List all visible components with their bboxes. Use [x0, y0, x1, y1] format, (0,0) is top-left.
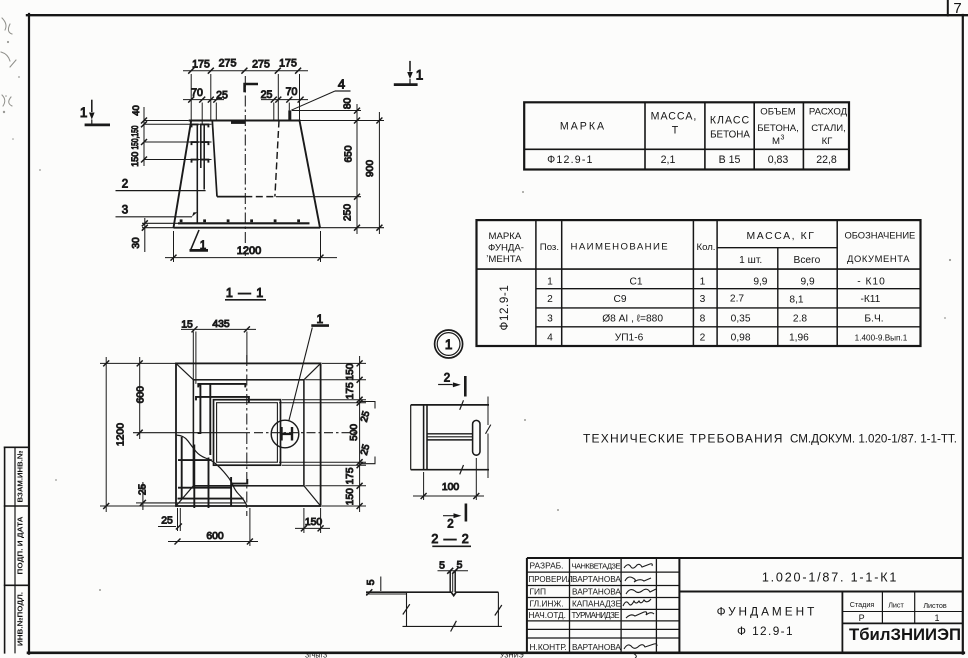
svg-text:650: 650 — [344, 145, 355, 162]
svg-text:ИНВ.№ПОДЛ.: ИНВ.№ПОДЛ. — [16, 592, 25, 646]
svg-text:ОБОЗНАЧЕНИЕ: ОБОЗНАЧЕНИЕ — [844, 230, 915, 241]
leader for item 4 — [291, 91, 335, 110]
svg-text:2: 2 — [447, 519, 453, 531]
mesh bar staple second — [196, 397, 249, 403]
svg-text:БЕТОНА,: БЕТОНА, — [757, 123, 799, 134]
svg-text:Н.КОНТР.: Н.КОНТР. — [530, 642, 567, 652]
svg-text:275: 275 — [219, 58, 237, 70]
mesh hook bar bottom — [232, 479, 247, 484]
svg-text:НАЧ.ОТД.: НАЧ.ОТД. — [529, 611, 566, 620]
overall 900 dimension — [378, 112, 380, 234]
svg-text:НАИМЕНОВАНИЕ: НАИМЕНОВАНИЕ — [571, 242, 670, 253]
plan left chain 1200 — [105, 357, 107, 512]
sheet frame bottom border — [28, 651, 964, 654]
svg-text:КАПАНАДЗЕ: КАПАНАДЗЕ — [572, 600, 622, 609]
svg-text:Т: Т — [672, 125, 679, 137]
svg-text:150: 150 — [345, 488, 356, 505]
table1 outer border — [524, 102, 849, 169]
svg-text:2: 2 — [444, 373, 450, 385]
row 2 — [547, 294, 881, 306]
svg-text:150: 150 — [345, 363, 356, 380]
svg-text:150,150: 150,150 — [129, 126, 140, 150]
svg-text:4: 4 — [338, 77, 345, 92]
signatures (handwritten squiggles) — [623, 564, 657, 658]
mesh grid horizontal bars — [178, 459, 212, 461]
svg-text:ФУНДА-: ФУНДА- — [488, 243, 524, 254]
plan top surface square — [193, 380, 304, 486]
plate thickness line left — [366, 593, 407, 595]
svg-text:0,98: 0,98 — [731, 333, 751, 344]
second dimension line 25/70 right — [261, 99, 308, 101]
svg-text:Лист: Лист — [888, 601, 904, 610]
mesh C1 vertical bars — [196, 124, 198, 224]
svg-text:ТбилЗНИИЭП: ТбилЗНИИЭП — [849, 626, 961, 644]
table2 header bottom line — [477, 268, 921, 270]
30 dimension bottom left — [144, 218, 146, 252]
anchor plate (double line) — [423, 405, 425, 470]
row 4 — [547, 333, 908, 344]
mesh cross-bar dots — [180, 219, 300, 222]
socket opening outer square — [214, 400, 281, 466]
detail circle mark 1 — [435, 330, 463, 358]
svg-text:175: 175 — [192, 58, 210, 70]
svg-text:2: 2 — [547, 294, 553, 305]
detail concrete top edge — [411, 404, 489, 406]
svg-text:СТАЛИ,: СТАЛИ, — [811, 123, 846, 134]
svg-text:30: 30 — [131, 237, 142, 249]
title block outer — [527, 557, 963, 559]
svg-text:КГ: КГ — [822, 136, 834, 147]
svg-text:7: 7 — [953, 0, 961, 17]
svg-text:С9: С9 — [613, 294, 626, 305]
svg-text:3: 3 — [781, 135, 785, 142]
svg-text:2.7: 2.7 — [730, 294, 744, 305]
svg-text:1: 1 — [316, 312, 323, 326]
svg-text:ГИП: ГИП — [530, 587, 547, 597]
mesh grid vertical bars — [181, 437, 183, 499]
concrete left edge — [406, 592, 408, 626]
mesh C1 cross hooks level 3 — [144, 159, 212, 161]
svg-text:5: 5 — [439, 560, 445, 571]
svg-text:600: 600 — [136, 386, 147, 404]
break slash bottom — [460, 465, 464, 474]
svg-text:2 — 2: 2 — 2 — [431, 532, 469, 546]
plan horizontal axis / 600 extension — [133, 432, 250, 434]
table2 outer border — [477, 220, 921, 346]
left margin stamp boxes outline — [4, 447, 6, 653]
left 5 dimension — [380, 577, 382, 592]
stage mini-table — [841, 592, 843, 653]
svg-text:15: 15 — [181, 320, 193, 331]
svg-text:ТЕХНИЧЕСКИЕ ТРЕБОВАНИЯ: ТЕХНИЧЕСКИЕ ТРЕБОВАНИЯ — [583, 432, 784, 446]
5/5 dimension — [438, 570, 469, 572]
table2 column lines — [535, 220, 537, 346]
detail left edge — [410, 405, 412, 470]
mesh vertical bar with end hooks — [198, 385, 201, 433]
svg-text:ГЛ.ИНЖ.: ГЛ.ИНЖ. — [530, 599, 564, 609]
svg-text:Листов: Листов — [923, 601, 947, 610]
plan outer square — [176, 363, 321, 506]
embedded item 4 bar — [288, 110, 291, 120]
bottom 25 dimension — [177, 508, 179, 531]
svg-text:500: 500 — [349, 424, 360, 441]
svg-text:ТУРМАНИДЗЕ: ТУРМАНИДЗЕ — [572, 611, 620, 620]
page number box line — [947, 0, 949, 16]
svg-text:МАРКА: МАРКА — [489, 231, 522, 242]
right break line — [487, 397, 489, 426]
svg-text:УЗНИЭ: УЗНИЭ — [500, 653, 524, 658]
bottom 600 dimension — [249, 508, 251, 546]
svg-text:Поз.: Поз. — [540, 242, 559, 253]
svg-text:900: 900 — [365, 160, 376, 177]
svg-text:ПОДП. И ДАТА: ПОДП. И ДАТА — [16, 516, 25, 575]
svg-text:70: 70 — [286, 86, 298, 98]
corner diagonal bottom-left — [176, 486, 193, 506]
svg-text:ЗгчыгЗ: ЗгчыгЗ — [305, 653, 327, 658]
svg-text:БЕТОНА: БЕТОНА — [710, 130, 750, 141]
svg-text:1: 1 — [934, 613, 939, 623]
svg-text:0,83: 0,83 — [768, 154, 789, 166]
plate top surface with weld notch — [366, 592, 498, 595]
svg-text:1 шт.: 1 шт. — [739, 255, 762, 266]
svg-text:5: 5 — [366, 579, 377, 585]
svg-text:1,96: 1,96 — [789, 333, 809, 344]
svg-text:175: 175 — [279, 58, 297, 70]
row 1 — [547, 277, 886, 288]
table1 column lines — [644, 102, 646, 169]
section 2 mark bottom — [465, 504, 468, 522]
mesh C1 cross hooks level 1 — [144, 123, 212, 125]
svg-text:М: М — [772, 136, 780, 147]
plan left chain 600 — [139, 357, 141, 439]
plan right extension lines — [322, 362, 366, 364]
svg-text:25: 25 — [216, 89, 228, 101]
names table rows — [527, 571, 680, 573]
top dimension line 175/275/275/175 — [183, 70, 308, 72]
svg-text:175: 175 — [345, 467, 356, 484]
pencil scribbles top-left margin — [1, 18, 16, 106]
svg-text:МАССА, КГ: МАССА, КГ — [747, 231, 816, 242]
svg-text:150: 150 — [305, 517, 323, 528]
mesh long vertical bar — [209, 384, 211, 455]
anchor rod above plate — [449, 572, 451, 593]
svg-text:600: 600 — [206, 531, 224, 542]
svg-text:РАЗРАБ.: РАЗРАБ. — [530, 561, 564, 571]
corner diagonal top-right — [304, 363, 321, 379]
25 callout lower — [361, 457, 376, 464]
foundation left sloped side — [174, 121, 192, 228]
svg-text:3: 3 — [122, 205, 128, 217]
svg-text:80: 80 — [343, 98, 354, 110]
svg-text:1: 1 — [445, 337, 453, 352]
svg-text:1: 1 — [80, 105, 88, 120]
svg-text:100: 100 — [442, 482, 460, 493]
svg-text:Ф12.9-1: Ф12.9-1 — [498, 285, 511, 331]
corner diagonal top-left — [176, 363, 193, 379]
detail concrete bottom edge — [411, 469, 489, 471]
svg-text:Кол.: Кол. — [697, 242, 716, 253]
foundation bottom line — [174, 227, 321, 229]
svg-text:5: 5 — [457, 560, 463, 571]
svg-text:1: 1 — [700, 277, 706, 288]
svg-text:435: 435 — [212, 319, 230, 330]
svg-text:2,1: 2,1 — [661, 154, 676, 166]
svg-text:В 15: В 15 — [719, 154, 741, 166]
svg-text:Б.Ч.: Б.Ч. — [864, 314, 883, 325]
svg-text:ВАРТАНОВА: ВАРТАНОВА — [572, 575, 621, 584]
svg-text:275: 275 — [252, 58, 270, 70]
sheet frame left border — [28, 14, 30, 654]
table2 row lines — [536, 288, 921, 290]
svg-text:3: 3 — [547, 314, 553, 325]
svg-text:1: 1 — [200, 240, 206, 252]
svg-text:ВАРТАНОВА: ВАРТАНОВА — [572, 643, 621, 652]
svg-text:70: 70 — [191, 87, 203, 99]
svg-text:СМ.ДОКУМ. 1.020-1/87. 1-1-ТТ.: СМ.ДОКУМ. 1.020-1/87. 1-1-ТТ. — [790, 433, 957, 446]
svg-text:1200: 1200 — [116, 423, 127, 446]
svg-text:25: 25 — [261, 89, 273, 101]
svg-text:8: 8 — [700, 314, 706, 325]
svg-text:ПРОВЕРИЛ: ПРОВЕРИЛ — [529, 575, 573, 584]
detail circle on plan — [271, 420, 299, 448]
anchor rod — [427, 433, 473, 435]
svg-text:1.020-1/87. 1-1-К1: 1.020-1/87. 1-1-К1 — [762, 571, 898, 585]
faint print ghost bottom — [305, 653, 524, 658]
svg-text:Всего: Всего — [794, 255, 821, 266]
svg-text:250: 250 — [343, 204, 354, 221]
svg-text:МАССА,: МАССА, — [651, 111, 698, 123]
bottom 1200 dimension — [173, 231, 175, 262]
svg-text:25: 25 — [161, 516, 173, 527]
svg-text:Ф12.9-1: Ф12.9-1 — [547, 154, 594, 166]
half-section corner mark upper — [245, 84, 258, 92]
half-section bar at top surface — [231, 121, 245, 124]
concrete bottom edge — [403, 625, 503, 627]
second dimension line 70/25 left — [183, 99, 224, 101]
svg-text:9,9: 9,9 — [753, 277, 767, 288]
plan right chain — [359, 356, 361, 512]
svg-text:150: 150 — [129, 152, 140, 167]
svg-text:-К11: -К11 — [860, 294, 880, 305]
svg-text:9,9: 9,9 — [801, 277, 815, 288]
extension lines top dims — [190, 74, 192, 121]
svg-text:Стадия: Стадия — [850, 600, 875, 609]
svg-text:ЧАНКВЕТАДЗЕ: ЧАНКВЕТАДЗЕ — [572, 562, 621, 571]
svg-text:Ø8 АI , ℓ=880: Ø8 АI , ℓ=880 — [602, 314, 663, 325]
bottom 150 dimension — [303, 508, 305, 533]
socket cavity left wall — [212, 121, 217, 197]
svg-text:ʼМЕНТА: ʼМЕНТА — [486, 254, 522, 265]
leader to detail flag — [289, 328, 313, 422]
svg-text:25: 25 — [137, 484, 148, 496]
mesh bar staple top — [198, 384, 245, 388]
bottom mesh C9 thick bar — [142, 222, 178, 224]
svg-text:ФУНДАМЕНТ: ФУНДАМЕНТ — [717, 605, 818, 619]
svg-text:Р: Р — [859, 613, 865, 623]
svg-text:3: 3 — [700, 294, 706, 305]
plan top dimension 15/435 — [181, 328, 256, 330]
row 3 — [547, 314, 883, 325]
100 dimension — [423, 472, 425, 500]
svg-text:1.400-9.Вып.1: 1.400-9.Вып.1 — [855, 334, 908, 343]
svg-text:1: 1 — [416, 68, 424, 83]
svg-text:- К10: - К10 — [857, 277, 886, 288]
svg-text:МАРКА: МАРКА — [560, 121, 606, 133]
svg-text:2.8: 2.8 — [793, 314, 807, 325]
svg-text:1 — 1: 1 — 1 — [226, 286, 264, 300]
vertical axis line — [244, 76, 246, 256]
socket cavity bottom — [217, 196, 245, 198]
sheet frame top border — [27, 14, 968, 16]
svg-text:2: 2 — [122, 179, 128, 191]
socket cavity right wall (hidden, dashed) — [275, 121, 279, 197]
doc number box bottom — [679, 591, 962, 593]
anchor washer (capsule) — [473, 420, 480, 455]
svg-text:ОБЪЕМ: ОБЪЕМ — [760, 107, 795, 118]
25 dimension left bottom — [136, 502, 140, 504]
mesh C1 cross hooks level 2 — [144, 141, 212, 143]
svg-text:40: 40 — [130, 105, 141, 115]
table1 header divider — [524, 148, 849, 150]
svg-text:175: 175 — [345, 382, 356, 399]
svg-text:ВАРТАНОВА: ВАРТАНОВА — [572, 588, 621, 597]
break slash top — [460, 400, 464, 410]
svg-text:РАСХОД: РАСХОД — [809, 107, 848, 118]
plan extension lines left — [100, 362, 176, 364]
масса кг sub-header line — [717, 247, 837, 249]
svg-text:С1: С1 — [629, 277, 642, 288]
svg-text:8,1: 8,1 — [789, 294, 803, 305]
svg-text:Ф 12.9-1: Ф 12.9-1 — [737, 624, 794, 638]
section 1 mark lower (triangle flag) — [191, 230, 199, 250]
svg-text:22,8: 22,8 — [816, 154, 837, 166]
svg-text:УП1-6: УП1-6 — [615, 333, 644, 344]
svg-text:2: 2 — [700, 333, 706, 344]
svg-text:1: 1 — [547, 277, 553, 288]
concrete right edge — [497, 592, 499, 626]
break (wavy) line — [177, 435, 247, 506]
section mark 1 top-right — [409, 61, 411, 72]
right dimension chain 80/650/250 — [356, 104, 358, 234]
names table columns — [569, 558, 571, 653]
svg-text:0,35: 0,35 — [731, 314, 751, 325]
svg-text:КЛАСС: КЛАСС — [710, 115, 750, 127]
foundation top surface line — [189, 120, 301, 122]
svg-text:1200: 1200 — [237, 245, 261, 257]
left dimension chain 40/150/150/150 — [143, 107, 145, 166]
corner diagonal bottom-right — [304, 486, 321, 506]
svg-text:ВЗАМ.ИНВ.№: ВЗАМ.ИНВ.№ — [16, 451, 25, 503]
25 callout upper — [361, 402, 376, 409]
socket opening inner square — [217, 403, 278, 463]
plan vertical axis — [246, 355, 248, 516]
foundation right sloped side — [300, 121, 321, 228]
sheet frame right border — [962, 15, 964, 654]
embedded item symbol (I-beam) — [282, 427, 293, 441]
svg-text:4: 4 — [547, 333, 553, 344]
svg-text:ДОКУМЕНТА: ДОКУМЕНТА — [847, 253, 910, 264]
